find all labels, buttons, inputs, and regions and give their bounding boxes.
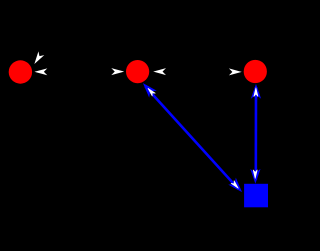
node: left red circle <box>9 60 32 83</box>
white inner arrowhead at middle circle end <box>146 87 155 96</box>
node: middle red circle <box>126 60 149 83</box>
blue arrowhead into right circle <box>252 85 260 97</box>
white arrowhead into right circle (from left) <box>230 69 240 74</box>
blue arrowhead into middle circle <box>141 81 155 96</box>
white arrowhead into middle circle (from left) <box>113 69 123 74</box>
node: blue square <box>244 184 268 208</box>
white inner arrowhead at vertical square end <box>253 170 257 179</box>
white arrowhead into left circle (diagonal, from upper right) <box>33 53 43 64</box>
white arrowhead into middle circle (from right) <box>155 69 165 74</box>
blue arrowhead into square (diagonal end) <box>230 179 244 194</box>
node: right red circle <box>244 60 267 83</box>
white arrowhead into left circle (horizontal) <box>36 69 46 74</box>
white inner arrowhead at diagonal square end <box>231 180 240 189</box>
wire: blue edge middle-circle to square (diagonal) <box>145 87 238 190</box>
blue arrowhead into square (vertical end) <box>251 170 259 182</box>
white inner arrowhead at right circle end <box>254 88 258 97</box>
wire: blue edge right-circle to square (vertical) <box>255 87 258 180</box>
